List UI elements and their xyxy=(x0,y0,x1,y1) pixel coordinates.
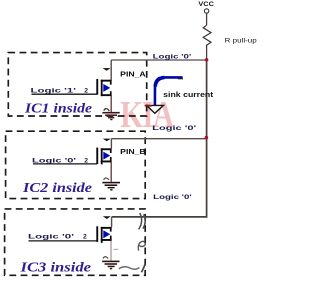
svg-text:VCC: VCC xyxy=(198,1,214,8)
wire: Q2 drain to node B xyxy=(110,139,112,149)
wire: node A horizontal (PIN_A to bus) xyxy=(111,59,206,61)
svg-text:sink current: sink current xyxy=(163,90,214,99)
net label Logic '0' node B xyxy=(152,125,197,132)
pin label PIN_B xyxy=(120,147,146,156)
resistor R pull-up xyxy=(203,25,211,49)
value label R pull-up xyxy=(225,37,257,44)
wire: Q1 source to ground xyxy=(110,96,112,112)
svg-text:IC2 inside: IC2 inside xyxy=(22,180,92,195)
label sink current xyxy=(163,90,214,99)
watermark squiggle near Q2 source xyxy=(104,178,109,180)
label IC2 inside xyxy=(22,180,92,195)
IC3 dashed boundary box xyxy=(5,209,146,275)
IC2 dashed boundary box xyxy=(6,131,146,198)
wire: shared bus vertical with bottom turn to IC3 xyxy=(112,60,207,217)
sink current arrowhead xyxy=(147,105,164,113)
gate net label Logic '0' pin 2 (IC2) xyxy=(32,158,88,165)
ground IC3 xyxy=(102,261,119,270)
watermark squiggle near Q1 source xyxy=(104,109,109,112)
svg-text:Logic '0': Logic '0' xyxy=(28,233,75,240)
wire: Q1 drain to node A xyxy=(110,60,112,80)
svg-text:2: 2 xyxy=(83,233,87,240)
gate net label Logic '0' pin 2 (IC3) xyxy=(28,233,87,240)
watermark faint dash near Q3 xyxy=(114,248,119,250)
svg-text:PIN_A: PIN_A xyxy=(120,70,146,79)
label IC1 inside xyxy=(24,100,92,115)
wire: resistor to bus xyxy=(206,50,208,61)
net label Logic '0' node C xyxy=(153,194,192,201)
svg-text:IC3 inside: IC3 inside xyxy=(19,260,91,275)
wire: Q3 source to ground xyxy=(110,241,112,261)
watermark tilde swirl xyxy=(119,267,140,269)
watermark KIA xyxy=(120,94,174,136)
red mark at arrowhead base xyxy=(145,105,152,107)
wire: node B horizontal (PIN_B to bus) xyxy=(111,138,206,140)
junction dot node A xyxy=(205,58,209,62)
transistor Q1 (n-mosfet IC1) xyxy=(96,68,111,96)
transistor Q3 (n-mosfet IC3) xyxy=(96,216,111,243)
svg-text:Logic '0': Logic '0' xyxy=(153,54,192,61)
svg-text:Logic '0': Logic '0' xyxy=(152,125,197,132)
wire: Q3 drain to bus bottom xyxy=(111,217,113,227)
ground IC2 xyxy=(102,182,120,191)
junction dot node B xyxy=(205,136,209,140)
watermark rho squiggle xyxy=(138,241,145,250)
watermark double paren over IC3 wire xyxy=(139,213,146,229)
wire: Q2 source to ground xyxy=(110,162,112,182)
wire: gate lead IC2 xyxy=(33,163,97,165)
gate net label Logic '1' pin 2 (IC1) xyxy=(31,88,89,95)
svg-text:R pull-up: R pull-up xyxy=(225,37,257,44)
wire: gate lead IC1 xyxy=(32,93,98,95)
transistor Q2 (n-mosfet IC2) xyxy=(96,139,111,165)
svg-text:PIN_B: PIN_B xyxy=(120,147,146,156)
pin label PIN_A xyxy=(120,70,146,79)
power port VCC xyxy=(198,1,214,25)
watermark stroke like 1 xyxy=(141,264,145,273)
wire: gate lead IC3 xyxy=(29,240,98,242)
svg-text:IC1 inside: IC1 inside xyxy=(24,100,92,115)
watermark squiggle near Q3 source xyxy=(103,257,108,259)
net label Logic '0' node A xyxy=(153,54,192,61)
svg-text:Logic '0': Logic '0' xyxy=(153,194,192,201)
IC1 dashed boundary box xyxy=(8,53,146,116)
sink current arrow (blue) xyxy=(155,77,183,105)
label IC3 inside xyxy=(19,260,91,275)
ground IC1 xyxy=(102,112,119,120)
